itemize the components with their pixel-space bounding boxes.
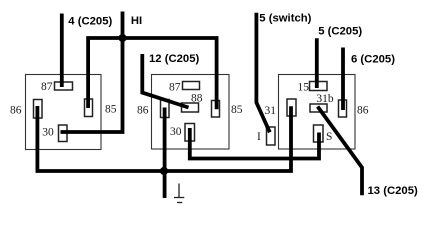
svg-text:6 (C205): 6 (C205) bbox=[351, 53, 395, 65]
pin 86 terminal K2 bbox=[161, 100, 170, 118]
svg-text:87: 87 bbox=[169, 82, 181, 94]
junction dot ground node bbox=[160, 167, 168, 175]
pin 30 terminal K1 bbox=[59, 125, 68, 142]
pin I terminal K3 bbox=[267, 127, 276, 145]
relay box K2 bbox=[152, 75, 230, 150]
svg-text:86: 86 bbox=[137, 105, 149, 117]
wire HI vertical down to pin 30 K1 bbox=[61, 12, 123, 133]
wire pin 86 K2 to ground bbox=[163, 108, 167, 199]
pin 31b terminal K3 bbox=[310, 104, 327, 112]
pin 86 terminal K3 bbox=[339, 100, 347, 117]
svg-text:15: 15 bbox=[298, 82, 310, 94]
junction dot HI node bbox=[118, 34, 126, 42]
pin S terminal K3 bbox=[314, 125, 324, 142]
svg-text:86: 86 bbox=[10, 105, 22, 117]
svg-text:31: 31 bbox=[265, 105, 277, 117]
relay box K1 bbox=[26, 75, 102, 150]
svg-text:5 (C205): 5 (C205) bbox=[318, 25, 362, 37]
svg-text:4 (C205): 4 (C205) bbox=[68, 16, 112, 28]
svg-text:I: I bbox=[257, 131, 261, 143]
pin 86 terminal K1 bbox=[34, 100, 43, 119]
pin 87 terminal K1 bbox=[55, 82, 73, 90]
wire 4 (C205) to pin 87 K1 bbox=[60, 14, 64, 88]
wire 5 (C205) to pin 15 K3 bbox=[315, 38, 319, 88]
svg-text:88: 88 bbox=[191, 93, 203, 105]
svg-text:S: S bbox=[326, 131, 332, 143]
wire 13 (C205) from pin 31b K3 bbox=[318, 107, 362, 196]
svg-text:13 (C205): 13 (C205) bbox=[368, 185, 418, 197]
wire pin 86 K1 to pin 31 K3 bbox=[37, 106, 291, 171]
wire pin 30 K2 to pin S K3 bbox=[190, 128, 319, 159]
pin 15 terminal K3 bbox=[310, 82, 328, 91]
pin 85 terminal K1 bbox=[85, 99, 93, 117]
pin 31 terminal K3 bbox=[287, 99, 296, 116]
pin 85 terminal K2 bbox=[212, 101, 220, 118]
svg-text:86: 86 bbox=[357, 105, 369, 117]
svg-text:85: 85 bbox=[105, 104, 117, 116]
svg-text:31b: 31b bbox=[316, 93, 334, 105]
pin 30 terminal K2 bbox=[185, 124, 195, 142]
wire 6 (C205) to pin 86 K3 bbox=[341, 48, 345, 111]
relay box K3 bbox=[279, 75, 356, 150]
pin 88 terminal K2 bbox=[182, 103, 199, 112]
svg-text:85: 85 bbox=[231, 104, 243, 116]
svg-text:HI: HI bbox=[131, 15, 142, 27]
ground symbol bbox=[174, 184, 184, 203]
svg-text:30: 30 bbox=[42, 127, 54, 139]
svg-text:12 (C205): 12 (C205) bbox=[149, 53, 199, 65]
svg-text:5 (switch): 5 (switch) bbox=[259, 12, 311, 24]
svg-text:87: 87 bbox=[41, 81, 53, 93]
wire 12 (C205) to pin 88 K2 bbox=[142, 54, 188, 108]
svg-text:30: 30 bbox=[170, 126, 182, 138]
pin 87 terminal K2 bbox=[183, 82, 200, 90]
wire HI horizontal branch to pin 85 K1 and pin 85 K2 bbox=[88, 38, 217, 109]
wire 5 (switch) to pin I K3 bbox=[256, 13, 269, 133]
